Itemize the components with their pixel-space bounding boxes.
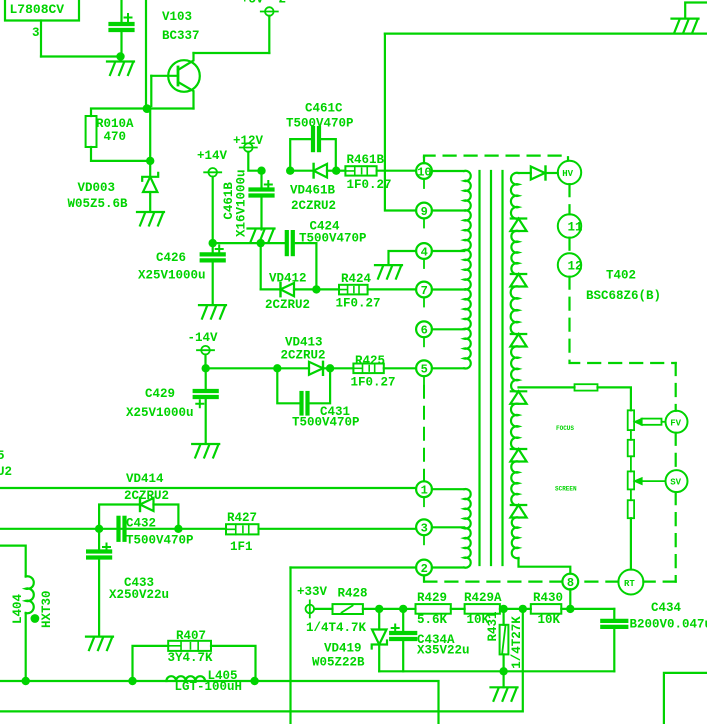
R407 loop left	[133, 646, 169, 681]
svg-text:1F0.27: 1F0.27	[336, 297, 381, 311]
wire	[379, 608, 403, 610]
rectifier diode in secondary	[511, 217, 526, 219]
wire C431 left	[277, 368, 301, 403]
svg-text:R428: R428	[338, 587, 368, 601]
V103 base lead	[151, 75, 178, 77]
node junction	[519, 605, 527, 613]
node junction	[499, 605, 507, 613]
wire vertical from pin2 row	[289, 568, 291, 724]
C461C plates	[311, 128, 315, 150]
ground	[86, 637, 113, 651]
svg-text:X25V1000u: X25V1000u	[126, 406, 194, 420]
+5V terminal	[265, 7, 274, 16]
svg-text:BSC68Z6(B): BSC68Z6(B)	[586, 289, 661, 303]
wire tap	[432, 209, 464, 211]
svg-text:B200V0.047u: B200V0.047u	[630, 618, 707, 632]
node junction	[499, 667, 507, 675]
wire R010A top	[91, 109, 146, 117]
wire	[204, 355, 206, 369]
wire tap	[432, 250, 464, 252]
svg-text:R427: R427	[227, 511, 257, 525]
svg-text:2: 2	[421, 562, 428, 576]
wire	[500, 608, 531, 610]
svg-text:C432: C432	[126, 517, 156, 531]
V103 base bar	[177, 67, 180, 85]
svg-text:5.6K: 5.6K	[417, 613, 448, 627]
wire tap	[432, 488, 464, 490]
ground	[491, 687, 518, 701]
wire bottom of +33V section	[379, 670, 614, 672]
V103 collector	[178, 53, 194, 70]
wire to pin 10	[377, 170, 416, 172]
wire top rail	[385, 32, 707, 34]
VD461B cathode bar	[312, 164, 314, 178]
node junction	[273, 364, 281, 372]
svg-text:3: 3	[421, 522, 428, 536]
wire	[260, 171, 262, 187]
C432 plates	[116, 518, 120, 540]
T402 pin 10	[416, 163, 432, 179]
wire	[314, 608, 332, 610]
ground	[192, 444, 219, 458]
wire pin2 row	[291, 566, 417, 568]
svg-text:R461B: R461B	[347, 153, 385, 167]
svg-text:FOCUS: FOCUS	[556, 425, 574, 432]
svg-text:VD419: VD419	[324, 642, 362, 656]
wire tap	[432, 170, 464, 172]
rectifier diode in secondary	[511, 448, 526, 450]
wire	[212, 177, 214, 244]
svg-text:C461C: C461C	[305, 102, 343, 116]
svg-text:LGT-100uH: LGT-100uH	[175, 680, 243, 694]
wire to ground	[503, 671, 505, 687]
T402 pin 2	[416, 560, 432, 576]
VD413 cathode bar	[322, 362, 324, 375]
wire to pin 7	[368, 288, 416, 290]
RT terminal circle	[618, 570, 643, 595]
rectifier diode in secondary	[511, 390, 526, 392]
svg-text:-14V: -14V	[188, 331, 219, 345]
svg-text:7: 7	[421, 284, 428, 298]
VD412 triangle	[281, 283, 295, 296]
svg-text:L7808CV: L7808CV	[10, 2, 65, 17]
svg-text:1F1: 1F1	[230, 540, 253, 554]
node junction	[312, 285, 320, 293]
node junction	[566, 605, 574, 613]
SV wiper arrow	[636, 479, 642, 484]
svg-text:5: 5	[421, 363, 428, 377]
svg-text:470: 470	[104, 130, 127, 144]
wire chain to RT	[630, 518, 632, 569]
wire pin3 row	[0, 528, 226, 530]
vertical wire from top	[145, 0, 147, 109]
R407 loop right	[211, 646, 256, 681]
VD461B triangle	[314, 164, 327, 178]
capacitor (top, clipped)	[120, 0, 122, 22]
svg-text:X16V1000u: X16V1000u	[235, 169, 249, 237]
T402 pin 3	[416, 519, 432, 535]
wire tap	[432, 367, 464, 369]
svg-text:R010A: R010A	[96, 117, 134, 131]
ground	[137, 212, 164, 226]
+12V terminal	[244, 143, 253, 152]
wire	[25, 613, 27, 681]
VD414 cathode bar	[139, 498, 141, 511]
secondary winding	[511, 173, 519, 219]
wire	[261, 288, 281, 290]
svg-text:C429: C429	[145, 387, 175, 401]
focus tap wire	[519, 386, 575, 388]
svg-text:C434: C434	[651, 601, 682, 615]
focus series resistor	[575, 384, 598, 390]
primary winding lower	[464, 489, 471, 568]
svg-text:3: 3	[32, 26, 40, 40]
svg-text:3Y4.7K: 3Y4.7K	[168, 651, 214, 665]
svg-text:X35V22u: X35V22u	[417, 644, 470, 658]
svg-text:HV: HV	[562, 169, 573, 179]
wire	[451, 608, 465, 610]
transistor V103 body	[168, 60, 200, 92]
svg-text:W05Z22B: W05Z22B	[312, 656, 365, 670]
T402 pin 4	[416, 243, 432, 259]
plus polarity mark	[125, 14, 132, 21]
rectifier diode in secondary	[511, 504, 526, 506]
wire rail (y=711.4)	[0, 609, 523, 712]
secondary bottom wire to pin 8	[519, 558, 571, 574]
svg-text:1/4T27K: 1/4T27K	[510, 616, 524, 669]
wire pin9 feed from top	[385, 34, 416, 211]
svg-text:VD003: VD003	[78, 181, 116, 195]
plus polarity mark	[216, 246, 223, 253]
wire C461C right	[322, 139, 336, 171]
svg-text:2CZRU2: 2CZRU2	[291, 199, 336, 213]
svg-text:1: 1	[421, 484, 428, 498]
C424 plates	[285, 232, 289, 254]
svg-text:X25V1000u: X25V1000u	[138, 269, 206, 283]
pin2 wire to dashed row	[423, 575, 425, 581]
dashed link pin5 to pin1	[423, 386, 425, 482]
ground top right	[685, 3, 707, 19]
wire	[260, 198, 262, 230]
svg-text:5: 5	[0, 449, 5, 463]
svg-text:2: 2	[279, 0, 287, 7]
node junction	[250, 677, 258, 685]
wire pin4 to ground	[389, 251, 417, 265]
svg-text:11: 11	[568, 221, 583, 235]
wire pin10 top stub	[423, 157, 425, 163]
node junction	[146, 157, 154, 165]
wire pin1 row	[0, 487, 416, 489]
node junction	[209, 239, 217, 247]
HV rectifier diode	[519, 172, 531, 174]
node junction	[22, 677, 30, 685]
wire tap	[432, 526, 464, 528]
wire	[260, 243, 262, 289]
svg-text:X250V22u: X250V22u	[109, 588, 169, 602]
ground	[199, 305, 226, 319]
wire	[40, 21, 42, 57]
rectifier diode in secondary	[511, 273, 526, 275]
svg-text:FV: FV	[670, 418, 681, 428]
plus polarity mark	[392, 625, 399, 632]
svg-text:VD412: VD412	[269, 272, 307, 286]
wire	[613, 629, 615, 671]
wire rail (y=681)	[0, 681, 439, 724]
wire	[0, 546, 26, 577]
svg-text:RT: RT	[624, 579, 635, 589]
node junction	[95, 525, 103, 533]
node junction	[375, 605, 383, 613]
HV terminal circle	[558, 161, 581, 184]
wire to pin 5	[384, 367, 416, 369]
transformer core	[478, 171, 480, 565]
svg-text:BC337: BC337	[162, 29, 200, 43]
VD414 loop right	[154, 505, 179, 529]
wire tap	[432, 328, 464, 330]
svg-text:2CZRU2: 2CZRU2	[265, 298, 310, 312]
svg-text:1/4T4.7K: 1/4T4.7K	[306, 621, 367, 635]
svg-text:4: 4	[421, 245, 428, 259]
node junction	[143, 104, 152, 113]
VD003 triangle	[143, 177, 157, 192]
node junction	[174, 525, 182, 533]
VD419 cathode bar	[372, 641, 387, 649]
wire tap	[432, 566, 464, 568]
svg-text:9: 9	[421, 205, 428, 219]
T402 pin 5	[416, 360, 432, 376]
svg-text:+12V: +12V	[233, 134, 264, 148]
wire	[206, 367, 278, 369]
svg-text:R429A: R429A	[464, 591, 502, 605]
bottom right block corner	[664, 673, 707, 724]
node junction	[202, 364, 210, 372]
node junction	[286, 167, 294, 175]
bullet marker	[31, 614, 40, 623]
svg-text:U2: U2	[0, 465, 12, 479]
svg-text:HXT30: HXT30	[40, 590, 54, 628]
ground	[248, 229, 275, 243]
FV wiper arrow	[636, 419, 642, 424]
VD414 loop left	[99, 505, 140, 529]
plus polarity mark	[265, 181, 272, 188]
svg-text:C426: C426	[156, 251, 186, 265]
T402 pin 7	[416, 282, 432, 298]
wire	[248, 152, 261, 171]
L404 coil	[26, 576, 34, 613]
svg-text:12: 12	[568, 260, 583, 274]
+14V terminal	[208, 168, 217, 177]
bleeder resistor chain	[628, 410, 634, 430]
svg-text:1F0.27: 1F0.27	[351, 375, 396, 389]
svg-text:L404: L404	[11, 593, 25, 624]
wire	[149, 109, 151, 161]
VD419 triangle	[372, 630, 387, 645]
svg-text:SCREEN: SCREEN	[555, 486, 577, 493]
ground	[107, 62, 134, 76]
svg-text:SV: SV	[670, 478, 681, 488]
svg-text:10: 10	[417, 165, 431, 179]
VD413 triangle	[309, 362, 323, 375]
VD412 cathode bar	[279, 283, 281, 296]
svg-text:+33V: +33V	[297, 585, 328, 599]
svg-text:R429: R429	[417, 591, 447, 605]
svg-text:6: 6	[421, 324, 428, 338]
svg-text:+5V: +5V	[241, 0, 264, 7]
svg-text:VD414: VD414	[126, 472, 164, 486]
FV series resistor	[642, 419, 662, 425]
wire pin8 to rail	[569, 589, 571, 609]
T402 pin 9	[416, 203, 432, 219]
wire R010A bottom	[91, 147, 150, 161]
V103 emitter	[178, 82, 194, 109]
wire	[403, 608, 415, 610]
FV terminal circle	[666, 411, 688, 433]
svg-text:R431: R431	[486, 611, 500, 641]
wire	[120, 32, 122, 52]
VD414 triangle	[140, 498, 154, 511]
wire to +5V	[194, 52, 270, 54]
rectifier diode in secondary	[511, 333, 526, 335]
dashed boundary lines	[424, 156, 568, 160]
node junction	[399, 605, 407, 613]
wire	[150, 76, 152, 106]
SV terminal circle	[666, 470, 688, 492]
primary winding upper	[464, 171, 471, 369]
wire	[41, 55, 121, 57]
svg-text:10K: 10K	[538, 613, 561, 627]
svg-text:VD461B: VD461B	[290, 184, 336, 198]
svg-text:T500V470P: T500V470P	[126, 534, 194, 548]
wire	[146, 107, 194, 109]
wire	[213, 242, 261, 244]
node junction	[326, 364, 334, 372]
pin 12 circle	[558, 253, 581, 276]
T402 pin 1	[416, 481, 432, 497]
wire C431 right	[311, 368, 331, 403]
-14V terminal	[201, 346, 210, 355]
svg-text:T500V470P: T500V470P	[292, 415, 360, 429]
wire	[268, 16, 270, 53]
svg-text:2CZRU2: 2CZRU2	[281, 348, 326, 362]
+33V terminal	[306, 605, 315, 614]
T402 pin 6	[416, 321, 432, 337]
VD003 cathode bar	[142, 173, 158, 181]
node junction	[257, 239, 265, 247]
svg-text:V103: V103	[162, 10, 192, 24]
wire	[613, 609, 615, 619]
node junction	[116, 52, 124, 60]
wire C461C left	[290, 139, 313, 171]
wire C424 right	[296, 243, 317, 289]
node junction	[128, 677, 136, 685]
svg-text:+14V: +14V	[197, 149, 228, 163]
node junction	[332, 167, 340, 175]
T402 pin 8	[562, 574, 578, 590]
svg-text:T402: T402	[606, 269, 636, 283]
plus polarity mark	[196, 400, 203, 407]
svg-text:W05Z5.6B: W05Z5.6B	[68, 197, 129, 211]
svg-text:R430: R430	[533, 591, 563, 605]
wire	[363, 608, 379, 610]
wire tap	[432, 288, 464, 290]
regulator U? L7808CV box (clipped)	[5, 0, 79, 21]
wire	[561, 608, 614, 610]
plus polarity mark	[103, 544, 110, 551]
wire to bleeder chain	[598, 387, 631, 410]
svg-text:8: 8	[567, 576, 574, 590]
node junction	[257, 167, 265, 175]
pin 11 circle	[558, 214, 581, 237]
